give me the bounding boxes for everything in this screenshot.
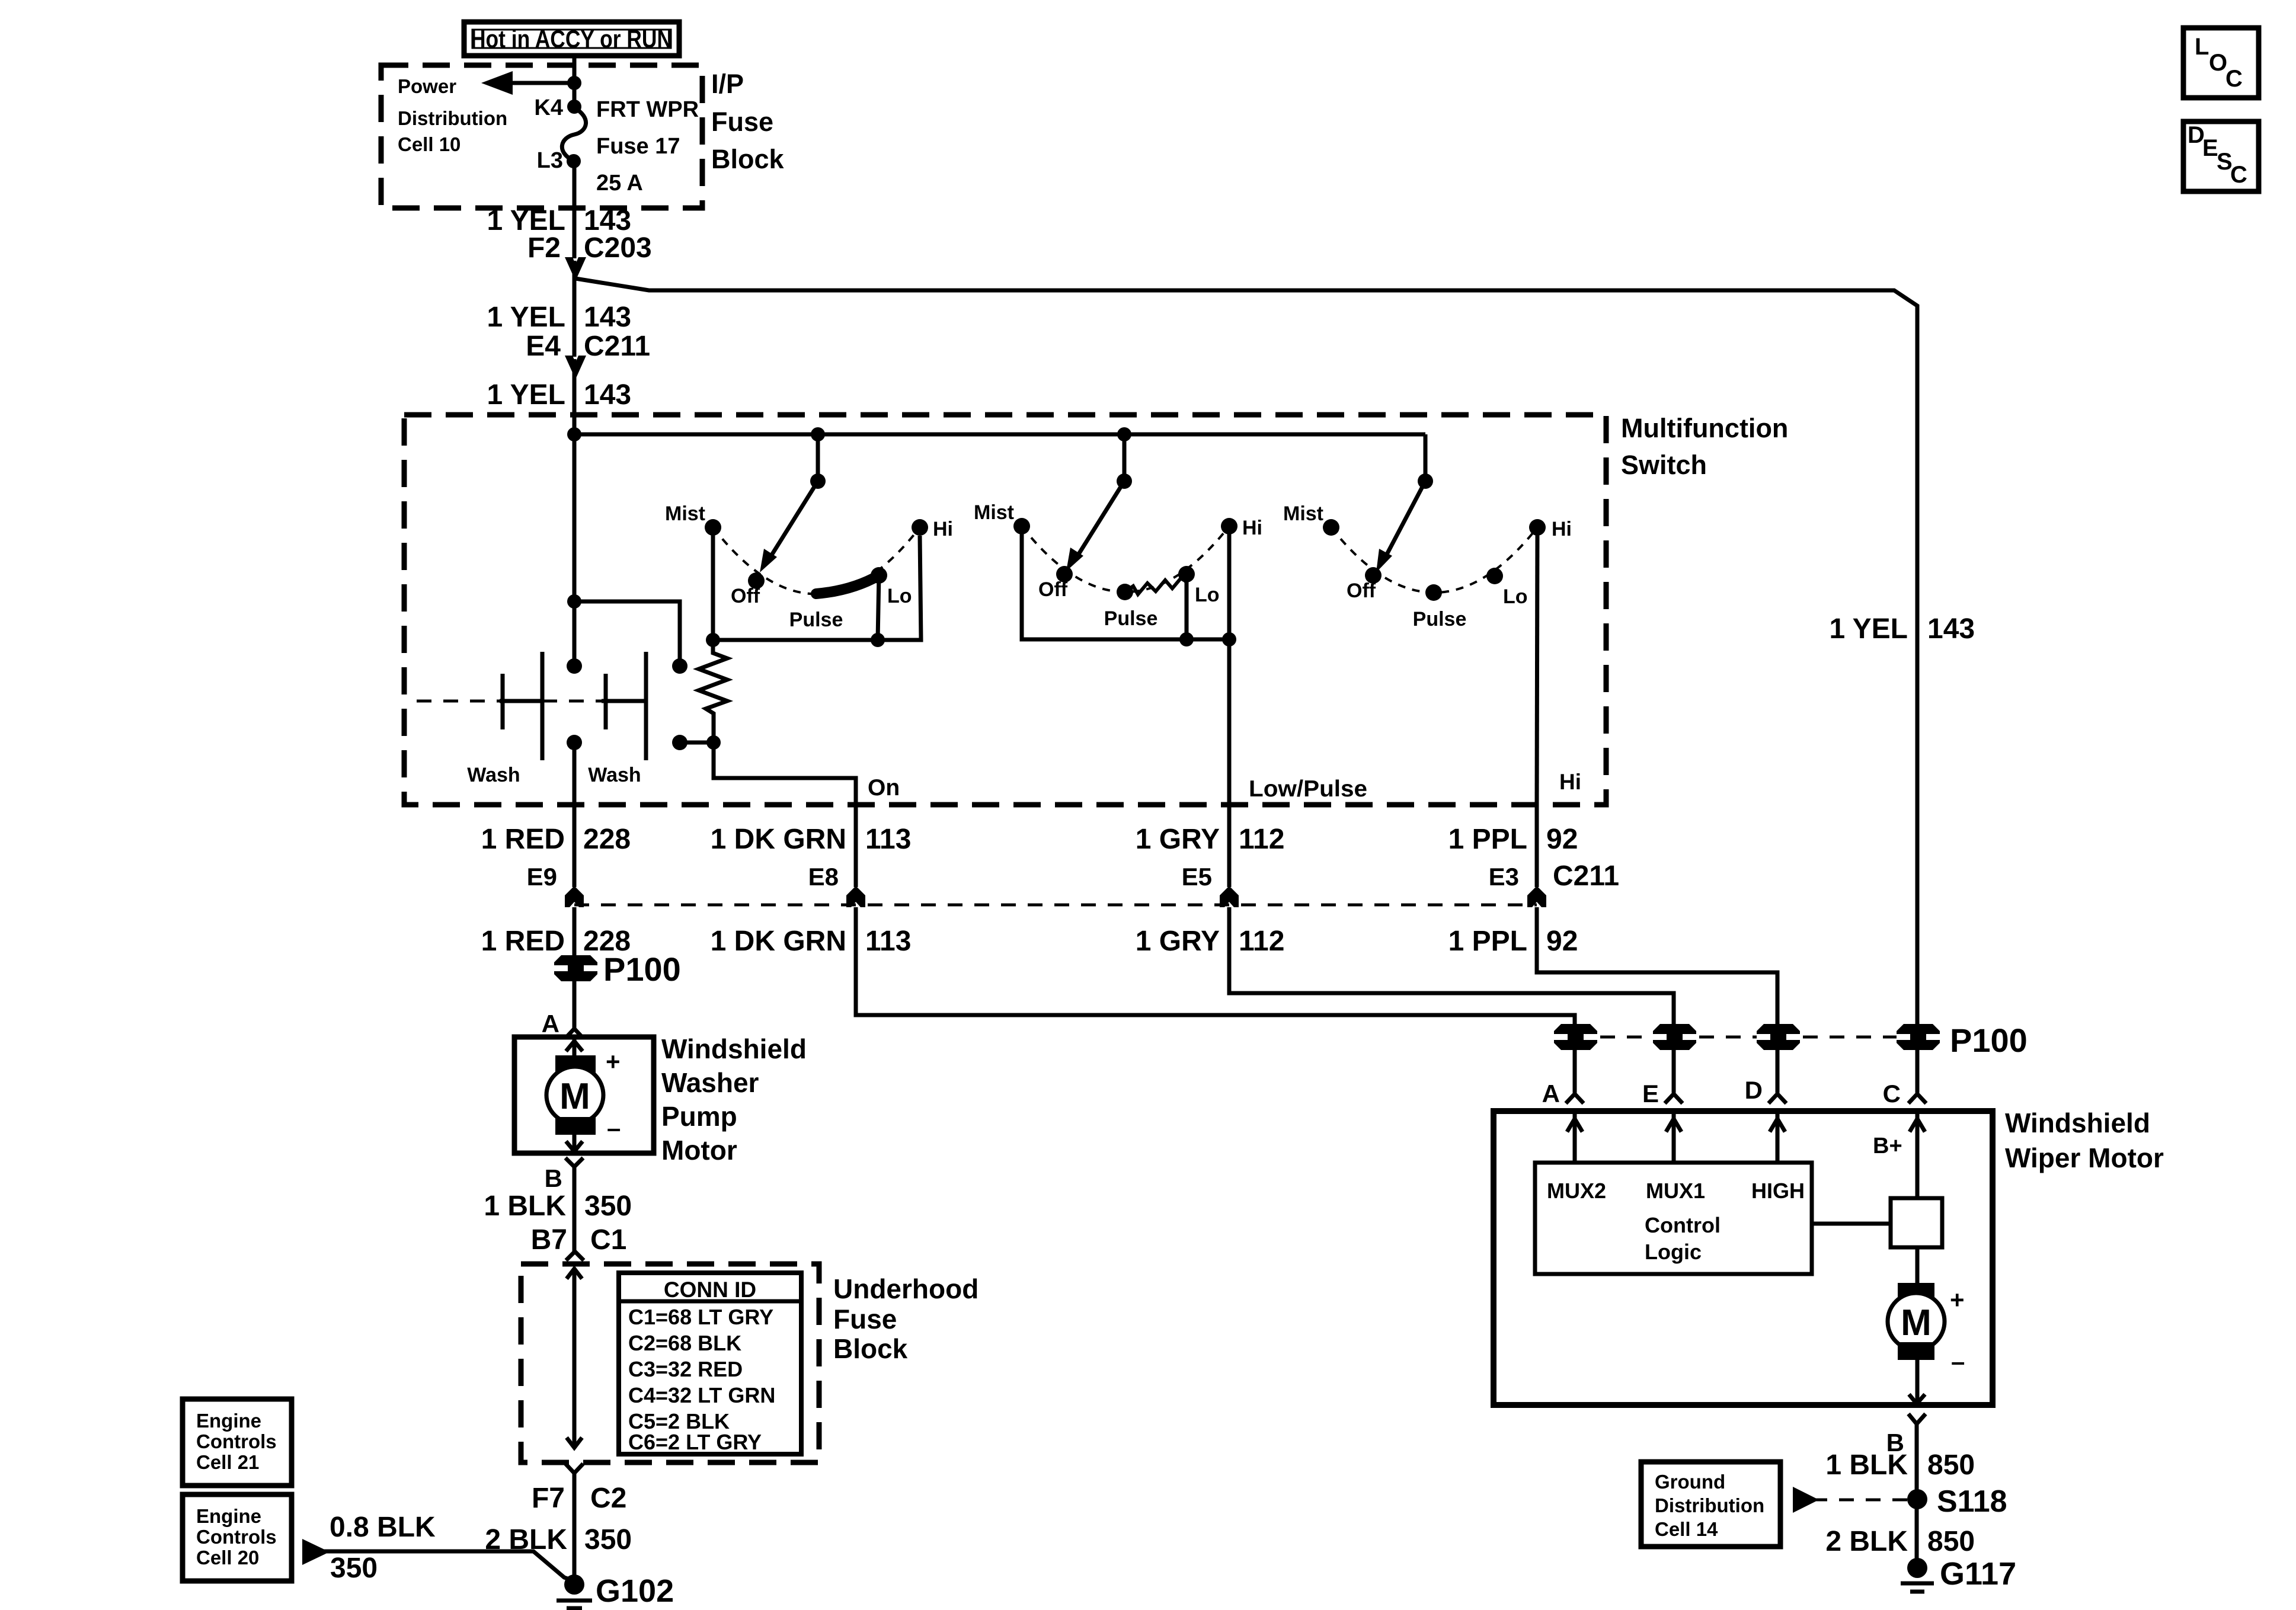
wire On output	[714, 742, 856, 805]
arrowhead up A	[1567, 1119, 1582, 1132]
junction dot s2 hi	[1222, 632, 1236, 646]
svg-text:C1: C1	[590, 1224, 626, 1256]
svg-text:Off: Off	[731, 585, 760, 607]
wire below underhood block	[573, 1473, 577, 1583]
svg-text:On: On	[868, 775, 900, 801]
female chevron wiper B	[1908, 1414, 1926, 1424]
switch2 Mist leg and bottom rail	[1022, 526, 1229, 639]
svg-text:1 GRY: 1 GRY	[1136, 824, 1220, 855]
switch1 Lo leg	[878, 575, 879, 640]
switch2 Off contact dot	[1056, 566, 1073, 582]
pivot2 dot	[1117, 473, 1132, 489]
switch3 Off contact dot	[1365, 567, 1382, 584]
wash switch1 blade tall bar	[541, 652, 545, 760]
svg-text:G102: G102	[596, 1573, 674, 1609]
svg-text:B+: B+	[1873, 1134, 1902, 1158]
svg-text:Block: Block	[833, 1333, 908, 1364]
svg-text:Mist: Mist	[665, 502, 705, 525]
switch3 Lo contact dot	[1486, 568, 1503, 584]
female chevron washer A	[565, 1029, 583, 1038]
switch3 Pulse contact dot	[1425, 584, 1442, 601]
wash left upper contact dot	[567, 658, 582, 674]
wash actuator dashed line mid	[542, 700, 602, 703]
svg-text:C2: C2	[590, 1483, 626, 1514]
resistor below switch1	[699, 640, 727, 742]
pivot2 wiper arrow	[1076, 481, 1124, 559]
female chevron A	[1566, 1094, 1584, 1103]
svg-text:0.8 BLK: 0.8 BLK	[330, 1512, 436, 1543]
wire top rail	[574, 433, 1425, 437]
underhood fuse block dashed box	[521, 1264, 819, 1462]
switch2 Lo contact dot	[1178, 566, 1195, 582]
wire branch to power distribution (left arrow)	[511, 81, 574, 85]
female chevron C	[1916, 1050, 1920, 1093]
svg-text:Fuse: Fuse	[711, 107, 773, 137]
svg-text:E: E	[2202, 135, 2218, 161]
svg-text:G117: G117	[1940, 1556, 2016, 1592]
ground G102 dot	[564, 1574, 584, 1595]
engine controls cell 20 box	[183, 1494, 292, 1581]
wire 1 PPL below E3	[1537, 907, 1777, 1024]
svg-text:Motor: Motor	[661, 1135, 737, 1166]
svg-text:1 DK GRN: 1 DK GRN	[711, 926, 846, 957]
svg-text:Block: Block	[711, 144, 785, 174]
P100 dashed gang line E-D	[1699, 1036, 1757, 1039]
svg-text:F2: F2	[527, 232, 561, 264]
svg-text:Pulse: Pulse	[789, 609, 843, 631]
svg-text:Pulse: Pulse	[1104, 607, 1158, 630]
wire wiper motor to box bottom	[1916, 1360, 1920, 1405]
svg-text:Wash: Wash	[588, 764, 641, 786]
wash right switch lower contact stub	[680, 741, 714, 745]
connector arrow E9	[565, 886, 584, 907]
hot-in-accy label box inner	[472, 30, 671, 48]
wire 1 YEL 143 into multifunction switch	[573, 359, 577, 434]
CONN ID table box	[619, 1273, 801, 1454]
svg-text:Logic: Logic	[1645, 1240, 1702, 1264]
svg-text:350: 350	[584, 1524, 632, 1555]
wash switch2 blade tall bar	[644, 652, 648, 760]
arrowhead up underhood	[567, 1269, 582, 1279]
svg-text:Engine: Engine	[196, 1505, 261, 1527]
P100 dashed gang line A-E	[1600, 1036, 1653, 1039]
svg-text:MUX1: MUX1	[1646, 1179, 1705, 1203]
svg-text:M: M	[1901, 1302, 1932, 1343]
svg-text:Engine: Engine	[196, 1410, 261, 1432]
control logic box	[1535, 1163, 1812, 1274]
svg-text:E: E	[1642, 1080, 1659, 1108]
wire pivot2 stub	[1123, 434, 1127, 481]
multifunction switch dashed box	[404, 415, 1606, 805]
connector arrow E8	[846, 886, 865, 907]
svg-text:Hi: Hi	[1552, 518, 1572, 540]
wiper wire D into control logic	[1776, 1111, 1780, 1163]
wire 1 DK GRN below E8	[856, 907, 1575, 1024]
female chevron washer B	[565, 1158, 583, 1167]
I/P fuse block dashed box	[381, 65, 702, 208]
arrowhead down wiper motor	[1909, 1394, 1925, 1404]
pivot1 wiper arrow	[769, 481, 818, 559]
pivot1 dot	[810, 473, 826, 489]
svg-text:P100: P100	[1950, 1022, 2028, 1059]
svg-text:Control: Control	[1645, 1213, 1721, 1237]
svg-text:Washer: Washer	[661, 1067, 759, 1098]
svg-text:C6=2 LT GRY: C6=2 LT GRY	[628, 1430, 762, 1454]
svg-text:228: 228	[583, 824, 631, 855]
washer motor circle	[546, 1067, 603, 1124]
wire 1 GRY below E5	[1229, 907, 1674, 1024]
svg-text:Cell 21: Cell 21	[196, 1451, 259, 1473]
wire relay to wiper motor	[1916, 1247, 1920, 1283]
arrowhead ground distribution	[1793, 1487, 1819, 1513]
wire below C203 arrow	[573, 261, 577, 357]
splice dot S118	[1907, 1489, 1927, 1509]
switch3 dashed arc	[1331, 527, 1537, 593]
washer motor brush top	[555, 1055, 596, 1073]
female chevron E	[1665, 1094, 1683, 1103]
switch2 Lo leg	[1185, 574, 1189, 639]
ground G117 symbol	[1901, 1582, 1934, 1586]
svg-text:2 BLK: 2 BLK	[1825, 1526, 1908, 1557]
switch1 dashed arc	[713, 527, 920, 594]
wire 1 GRY 112 from LowPulse to E5	[1227, 805, 1232, 887]
switch3 Mist contact dot	[1323, 519, 1339, 536]
inline connector P100 washer	[551, 955, 600, 981]
fuse FRT WPR element curve	[562, 108, 586, 161]
svg-text:C3=32 RED: C3=32 RED	[628, 1357, 743, 1381]
svg-text:A: A	[542, 1010, 559, 1038]
washer motor lead arrow up	[573, 1037, 577, 1061]
wire branch to right 1 YEL 143 top	[575, 279, 1917, 1024]
hot-in-accy label box outer	[464, 22, 679, 56]
svg-text:1 YEL: 1 YEL	[487, 379, 565, 411]
svg-text:I/P: I/P	[711, 69, 744, 99]
svg-text:1 YEL: 1 YEL	[487, 302, 565, 333]
svg-text:Power: Power	[398, 75, 456, 97]
svg-text:1 BLK: 1 BLK	[1825, 1449, 1908, 1481]
svg-text:C2=68 BLK: C2=68 BLK	[628, 1331, 741, 1355]
svg-text:M: M	[559, 1076, 590, 1117]
svg-text:113: 113	[865, 824, 911, 855]
svg-text:B7: B7	[531, 1224, 567, 1256]
svg-text:+: +	[606, 1048, 621, 1076]
svg-text:Pulse: Pulse	[1413, 608, 1467, 630]
arrowhead up E	[1666, 1119, 1681, 1132]
P100 dashed gang line D-C	[1803, 1036, 1897, 1039]
relay square box	[1891, 1198, 1942, 1247]
female chevron F7	[565, 1464, 583, 1473]
ground G102 symbol	[557, 1599, 592, 1603]
wiper motor circle	[1888, 1293, 1945, 1350]
svg-text:112: 112	[1239, 926, 1284, 957]
svg-text:1 GRY: 1 GRY	[1136, 926, 1220, 957]
svg-text:C: C	[2230, 162, 2247, 188]
svg-text:B: B	[545, 1164, 562, 1192]
fuse K4 terminal dot	[567, 100, 581, 114]
wash right upper contact dot	[672, 658, 687, 674]
wiper wire A into control logic	[1573, 1111, 1577, 1163]
svg-text:F7: F7	[532, 1483, 565, 1514]
svg-text:Windshield: Windshield	[661, 1033, 807, 1064]
svg-text:112: 112	[1239, 824, 1284, 855]
svg-text:25 A: 25 A	[596, 171, 643, 196]
svg-text:Windshield: Windshield	[2005, 1108, 2150, 1138]
junction dot s2 lo	[1179, 632, 1194, 646]
junction dot wash branch	[567, 594, 581, 609]
junction dot pivot1 rail	[811, 427, 825, 441]
svg-text:Lo: Lo	[887, 585, 912, 607]
arrowhead down underhood	[567, 1438, 582, 1448]
svg-text:92: 92	[1546, 824, 1578, 855]
wash branch wire from main	[574, 601, 680, 666]
svg-text:850: 850	[1927, 1526, 1975, 1557]
svg-text:C4=32 LT GRN: C4=32 LT GRN	[628, 1383, 775, 1407]
svg-text:L3: L3	[537, 148, 563, 173]
svg-text:Off: Off	[1347, 580, 1376, 602]
inline connector P100 E	[1650, 1024, 1699, 1050]
wire 0.8 BLK 350 horizontal	[321, 1551, 574, 1581]
wiper motor brush bottom	[1898, 1342, 1934, 1360]
switch1 Mist leg	[711, 527, 715, 640]
svg-text:Pump: Pump	[661, 1101, 737, 1132]
junction dot s1 rail left	[706, 633, 720, 647]
svg-text:Cell 14: Cell 14	[1655, 1518, 1718, 1540]
svg-text:C203: C203	[584, 232, 652, 264]
connector arrow C203	[565, 257, 586, 281]
svg-text:Controls: Controls	[196, 1430, 277, 1452]
svg-text:Mist: Mist	[974, 501, 1014, 524]
svg-text:1 PPL: 1 PPL	[1448, 824, 1527, 855]
wire pivot1 stub	[816, 434, 820, 481]
svg-text:Mist: Mist	[1283, 502, 1323, 525]
svg-text:D: D	[1745, 1076, 1763, 1104]
svg-text:FRT WPR: FRT WPR	[596, 97, 699, 122]
svg-text:Hot in ACCY or RUN: Hot in ACCY or RUN	[471, 25, 672, 53]
wash switch1 tee bar	[500, 699, 542, 703]
svg-text:K4: K4	[534, 95, 563, 120]
inline connector P100 D	[1754, 1024, 1803, 1050]
svg-text:Underhood: Underhood	[833, 1273, 978, 1304]
wire washer output below switch	[573, 742, 577, 805]
svg-text:Multifunction: Multifunction	[1621, 413, 1788, 443]
wire 1 RED 228 below E9	[573, 907, 577, 1029]
pivot3 dot	[1418, 473, 1433, 489]
svg-text:1 RED: 1 RED	[481, 824, 565, 855]
wire 1 PPL 92 from Hi to E3	[1535, 805, 1539, 887]
svg-text:350: 350	[584, 1190, 632, 1222]
svg-text:Ground: Ground	[1655, 1471, 1725, 1493]
svg-text:Controls: Controls	[196, 1526, 277, 1548]
svg-text:113: 113	[865, 926, 911, 957]
svg-text:1 RED: 1 RED	[481, 926, 565, 957]
svg-text:Off: Off	[1038, 578, 1068, 601]
switch2 pulse resistor	[1125, 577, 1187, 594]
svg-text:E9: E9	[527, 863, 557, 891]
windshield wiper motor box	[1494, 1111, 1993, 1405]
wire main feed inside switch	[573, 434, 577, 666]
wire E below P100	[1672, 1050, 1676, 1093]
arrowhead up D	[1770, 1119, 1785, 1132]
svg-text:Hi: Hi	[933, 518, 953, 540]
svg-text:CONN ID: CONN ID	[664, 1278, 756, 1302]
dashed wire to S118	[1812, 1499, 1910, 1502]
connector arrow E3	[1527, 886, 1546, 907]
svg-text:+: +	[1950, 1286, 1965, 1314]
inline connector P100 C	[1894, 1024, 1943, 1050]
wire 1 YEL 143 from fuse to C203	[573, 161, 577, 258]
svg-text:O: O	[2209, 50, 2227, 76]
wash left lower contact dot	[567, 735, 582, 750]
svg-text:–: –	[607, 1114, 621, 1142]
svg-text:HIGH: HIGH	[1751, 1179, 1805, 1203]
switch1 Mist contact dot	[705, 519, 721, 536]
svg-text:Fuse: Fuse	[833, 1304, 897, 1334]
wire 1 BLK 850	[1915, 1424, 1919, 1568]
svg-text:L: L	[2195, 34, 2209, 60]
svg-text:C: C	[1883, 1080, 1901, 1108]
engine controls cell 21 box	[183, 1399, 292, 1486]
svg-text:C211: C211	[1553, 860, 1619, 892]
LOC box	[2183, 28, 2259, 98]
svg-text:850: 850	[1927, 1449, 1975, 1481]
svg-text:Cell 10: Cell 10	[398, 133, 461, 155]
wire 1 DK GRN 113 from On to E8	[854, 805, 858, 887]
wire Low/Pulse output (switch2 Hi leg down)	[1227, 526, 1232, 805]
switch1 bottom rail	[713, 536, 921, 640]
switch3 Hi contact dot	[1529, 519, 1546, 536]
switch1 Hi contact dot	[912, 519, 928, 536]
C211 thin dashed interconnect line	[574, 904, 1537, 907]
wash switch2 tee bar	[602, 699, 646, 703]
svg-text:Switch: Switch	[1621, 450, 1707, 480]
svg-text:S118: S118	[1937, 1484, 2007, 1519]
svg-text:E8: E8	[808, 863, 839, 891]
svg-text:C1=68 LT GRY: C1=68 LT GRY	[628, 1305, 773, 1329]
junction dot pivot2 rail	[1117, 427, 1131, 441]
svg-text:Hi: Hi	[1559, 770, 1581, 794]
svg-text:Distribution: Distribution	[398, 107, 507, 129]
switch1 Off contact dot	[748, 572, 765, 589]
connector arrow E5	[1220, 886, 1239, 907]
switch2 pulse contact dot	[1117, 584, 1133, 600]
arrowhead from engine controls	[302, 1539, 330, 1565]
svg-text:143: 143	[584, 302, 631, 333]
svg-text:Cell 20: Cell 20	[196, 1547, 259, 1569]
svg-text:Wiper Motor: Wiper Motor	[2005, 1142, 2164, 1173]
svg-text:P100: P100	[603, 950, 681, 988]
svg-text:350: 350	[330, 1553, 378, 1584]
fuse L3 terminal dot	[567, 154, 581, 168]
svg-text:E5: E5	[1182, 863, 1212, 891]
ground G117 dot	[1907, 1558, 1927, 1578]
svg-text:Lo: Lo	[1195, 584, 1220, 606]
arrowhead up C	[1910, 1119, 1925, 1132]
wiper wire E into control logic	[1672, 1111, 1676, 1163]
inline connector P100 A	[1551, 1024, 1600, 1050]
svg-text:143: 143	[584, 379, 631, 411]
junction dot at fuse feed	[567, 76, 581, 90]
wire 1 RED 228 from switch to E9	[573, 805, 577, 887]
arrowhead left power distribution	[481, 71, 513, 95]
svg-text:Distribution: Distribution	[1655, 1494, 1764, 1516]
ground distribution box	[1641, 1462, 1780, 1547]
wire D below P100	[1776, 1050, 1780, 1093]
wash actuator dashed line	[417, 700, 500, 703]
svg-text:A: A	[1542, 1080, 1560, 1108]
svg-text:C: C	[2225, 66, 2243, 92]
junction dot resistor bottom	[706, 735, 721, 750]
wiper wire C B+ down to relay	[1916, 1111, 1920, 1198]
washer motor lead arrow down	[573, 1135, 577, 1153]
svg-text:C211: C211	[584, 331, 650, 362]
junction dot s1 rail lo	[871, 633, 885, 647]
washer pump motor box	[514, 1037, 654, 1153]
wire control logic to relay	[1812, 1222, 1891, 1226]
svg-text:Low/Pulse: Low/Pulse	[1249, 776, 1367, 802]
svg-text:Wash: Wash	[467, 764, 520, 786]
svg-text:Lo: Lo	[1503, 585, 1528, 608]
wiper motor brush top	[1898, 1283, 1934, 1301]
switch2 Hi contact dot	[1221, 518, 1237, 534]
wash switch1 short bar	[501, 674, 505, 729]
wash switch2 short bar	[604, 674, 608, 729]
switch1 Lo contact dot	[871, 567, 887, 584]
svg-text:92: 92	[1546, 926, 1578, 957]
washer motor brush bottom	[555, 1117, 596, 1135]
switch2 Mist contact dot	[1013, 518, 1030, 534]
switch1 pulse wiper thick arc	[816, 575, 879, 594]
svg-text:E4: E4	[526, 331, 561, 362]
svg-text:1 PPL: 1 PPL	[1448, 926, 1527, 957]
wire top rail corner to pivot3	[1424, 434, 1428, 481]
svg-text:E3: E3	[1489, 863, 1519, 891]
junction dot main/top rail	[567, 427, 581, 441]
male chevron B7	[566, 1251, 584, 1260]
wash right lower contact dot	[672, 735, 687, 750]
underhood internal wire with arrows	[573, 1268, 577, 1448]
svg-text:1 YEL: 1 YEL	[1829, 613, 1908, 645]
svg-text:MUX2: MUX2	[1547, 1179, 1606, 1203]
svg-text:Hi: Hi	[1242, 517, 1262, 539]
wire Hi output (switch3 Hi leg down)	[1537, 527, 1537, 805]
wire from Hot in ACCY box into fuse block	[573, 56, 577, 107]
DESC box	[2183, 121, 2259, 191]
svg-text:1 BLK: 1 BLK	[484, 1190, 566, 1222]
svg-text:143: 143	[1927, 613, 1975, 645]
switch2 dashed arc	[1022, 526, 1229, 592]
CONN ID header rule	[619, 1299, 801, 1304]
pivot3 wiper arrow	[1384, 481, 1425, 559]
svg-text:1 DK GRN: 1 DK GRN	[711, 824, 846, 855]
wire 1 BLK 350	[573, 1167, 577, 1251]
svg-text:–: –	[1951, 1347, 1965, 1375]
svg-text:Fuse 17: Fuse 17	[596, 134, 680, 159]
connector arrow C211	[565, 356, 586, 379]
wire A below P100	[1573, 1050, 1577, 1093]
female chevron D	[1769, 1094, 1786, 1103]
